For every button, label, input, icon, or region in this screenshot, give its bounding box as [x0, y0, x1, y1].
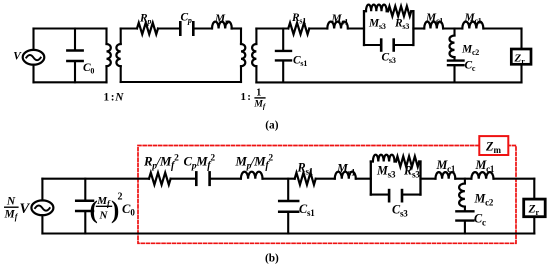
svg-text::: : [247, 91, 251, 103]
wire Ms1 to block a [348, 27, 364, 29]
wire down to Zr b [533, 179, 535, 199]
inductor Mp [212, 22, 232, 29]
wire top rail b left [42, 178, 149, 180]
svg-text:Mc1: Mc1 [436, 158, 456, 174]
transformer T2 primary winding [241, 29, 245, 83]
inductor Ms1 a [327, 22, 348, 29]
wire Rs1 to Ms1 b [316, 178, 335, 180]
wire Rs3 to right bar a [411, 10, 413, 12]
inductor Mp/Mf2 [241, 172, 263, 179]
capacitor Cp [180, 22, 193, 34]
wire down to Zr a [520, 29, 522, 50]
load Zr b box [524, 199, 546, 217]
wire source top [32, 29, 34, 50]
capacitor CpMf2 [196, 172, 209, 184]
wire Mc1 to Zr a [483, 27, 521, 29]
impedance Zm red box [479, 136, 508, 155]
wire a mid loop bottom rail [121, 81, 241, 83]
transformer T1 secondary winding [116, 29, 120, 83]
wire Mc1 to node b [455, 178, 471, 180]
wire Mc1 to node a [443, 27, 462, 29]
svg-text:Mp: Mp [214, 13, 229, 27]
inductor Mc2 b shunt [459, 179, 465, 211]
inductor Ms3 a [366, 5, 387, 12]
wire Cs3 to right bar b [403, 194, 421, 196]
wire block to Mc1 b [421, 178, 436, 180]
wire bottom rail left loop a [34, 81, 107, 83]
svg-text:Mc1: Mc1 [475, 158, 495, 174]
parallel block a right bar [412, 11, 414, 45]
svg-text:Mc2: Mc2 [474, 192, 494, 208]
svg-text:Rs3: Rs3 [394, 18, 409, 32]
capacitor C0b [76, 179, 93, 234]
wire Rp to Cp b [171, 178, 196, 180]
inductor Mc2 a shunt [450, 29, 455, 60]
svg-text:Rs1: Rs1 [291, 12, 306, 26]
svg-text:Mp/Mf2: Mp/Mf2 [235, 154, 274, 172]
resistor Rs3 a [388, 6, 411, 16]
wire source bottom [32, 65, 34, 83]
source V2 label N/Mf V [4, 196, 31, 222]
inductor Mc1 second a [462, 22, 483, 29]
svg-text:Cc: Cc [465, 60, 476, 74]
svg-text:V: V [13, 51, 22, 63]
wire Zr to bottom a [520, 64, 522, 82]
svg-text:1: 1 [256, 87, 261, 98]
svg-text:(a): (a) [265, 119, 278, 131]
svg-text:Rs1: Rs1 [297, 161, 314, 177]
capacitor Cs3 a [381, 40, 394, 51]
svg-text:V: V [20, 201, 31, 217]
capacitor Cs1 a [276, 29, 291, 83]
svg-text:Cc: Cc [474, 212, 486, 228]
resistor Rs1 a [288, 23, 309, 34]
transformer T2 secondary winding [252, 29, 256, 83]
wire Mp to T2 [232, 27, 242, 29]
wire bottom rail b [43, 232, 535, 234]
inductor Mc1 second b [471, 172, 493, 179]
wire top rail left loop a [34, 27, 107, 29]
red dashed box Zm boundary [138, 146, 516, 244]
svg-text:1: 1 [104, 92, 110, 104]
svg-text:Cp: Cp [181, 12, 192, 26]
svg-text:Zr: Zr [528, 204, 540, 218]
ac source V1 [23, 50, 45, 65]
wire Ms3 to Rs3 a [387, 10, 388, 12]
svg-text:Cs1: Cs1 [293, 54, 307, 68]
wire Rs1 to Ms1 a [309, 27, 327, 29]
wire block b bottom branch left [371, 194, 388, 196]
capacitor Cc b [456, 211, 473, 233]
capacitor C0 [67, 29, 82, 83]
wire Ms3 to Rs3 b [395, 160, 397, 162]
parallel block a left bar [363, 11, 365, 45]
svg-text:(b): (b) [265, 252, 279, 264]
wire source top b [41, 179, 43, 201]
capacitor Cs1 b [279, 179, 298, 234]
capacitor Cc a [448, 61, 464, 83]
wire Rs3 to right bar b [419, 160, 420, 162]
svg-text:CpMf2: CpMf2 [184, 154, 216, 172]
svg-text:Mc2: Mc2 [461, 43, 479, 57]
svg-text:Rp/Mf2: Rp/Mf2 [143, 154, 179, 172]
svg-text:Mc1: Mc1 [464, 12, 482, 26]
wire block a bottom branch left [364, 44, 379, 46]
svg-text::: : [111, 92, 115, 104]
svg-text:Mf: Mf [4, 209, 19, 222]
svg-text:Ms1: Ms1 [331, 13, 349, 27]
resistor Rp/Mf2 [149, 173, 171, 185]
inductor Ms3 b [373, 155, 395, 162]
resistor Rs1 b [295, 173, 316, 185]
wire block to Mc1 a [413, 27, 424, 29]
svg-text:Cs3: Cs3 [392, 202, 408, 218]
inductor Ms1 b [335, 172, 356, 179]
svg-text:Mf: Mf [253, 99, 266, 111]
inductor Mc1 first a [424, 22, 443, 29]
svg-text:Rp: Rp [139, 13, 151, 27]
wire a mid loop top left [121, 27, 137, 29]
svg-text:N: N [6, 196, 16, 208]
wire Rp to Cp [158, 27, 179, 29]
wire a right loop bottom rail [256, 81, 521, 83]
transformer T2 ratio label 1 : 1/Mf [241, 87, 266, 110]
svg-text:C0: C0 [83, 62, 94, 76]
wire Ms1 to block b [356, 178, 371, 180]
ac source V2 [31, 200, 53, 215]
svg-text:C0: C0 [122, 202, 135, 218]
svg-text:Ms1: Ms1 [336, 161, 356, 177]
svg-text:N: N [114, 92, 124, 104]
wire block b top branch left [371, 160, 373, 162]
capacitor C0b label (Mf/N)^2 C0 [90, 192, 136, 225]
wire source bottom b [41, 215, 43, 233]
wire Cs3 to right bar a [395, 44, 414, 46]
wire Cp to Mp b [211, 178, 241, 180]
resistor Rs3 b [396, 156, 419, 166]
svg-text:Ms3: Ms3 [368, 18, 386, 32]
svg-text:Cs1: Cs1 [299, 202, 315, 218]
wire block a top branch left [364, 10, 366, 12]
wire Zr to bottom b [533, 217, 535, 234]
transformer T1 primary winding [107, 29, 111, 83]
svg-text:Zr: Zr [514, 53, 526, 67]
svg-text:Cs3: Cs3 [382, 52, 396, 66]
capacitor Cs3 b [389, 190, 402, 201]
resistor Rp [137, 23, 158, 34]
parallel block b left bar [370, 162, 372, 195]
load Zr a box [511, 49, 531, 64]
svg-text:2: 2 [118, 192, 123, 203]
parallel block b right bar [419, 162, 421, 195]
wire Mp to Rs1 b [263, 178, 295, 180]
svg-text:Mc1: Mc1 [425, 12, 443, 26]
svg-text:Ms3: Ms3 [376, 163, 396, 179]
inductor Mc1 first b [436, 172, 456, 179]
svg-text:1: 1 [241, 91, 247, 103]
wire Mc1 to Zr b [494, 178, 535, 180]
wire a right loop top [256, 27, 288, 29]
svg-text:N: N [99, 210, 109, 222]
wire Cp to Mp [194, 27, 212, 29]
